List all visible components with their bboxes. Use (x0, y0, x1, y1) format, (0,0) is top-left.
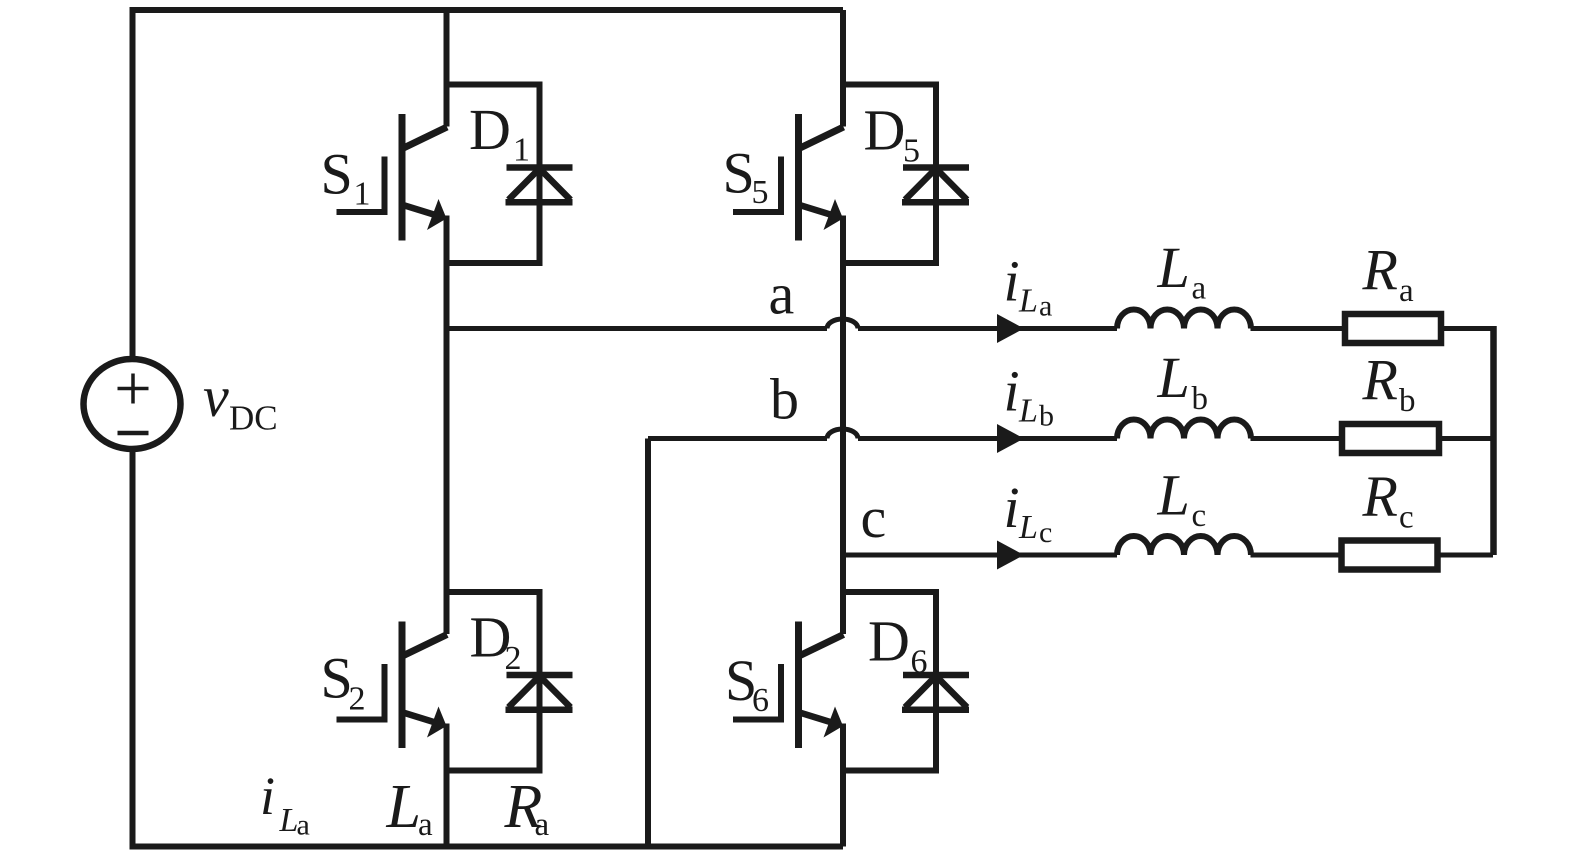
svg-text:i: i (260, 766, 275, 826)
wire Rc to bus (1438, 553, 1494, 558)
svg-text:L: L (1157, 345, 1190, 410)
inductor Lc (1117, 536, 1251, 555)
svg-text:a: a (535, 807, 550, 843)
svg-text:a: a (769, 262, 795, 327)
inductor Lb (1117, 420, 1251, 439)
svg-text:c: c (1039, 516, 1052, 549)
transistor S2 (337, 622, 448, 749)
diode D5 (843, 85, 969, 264)
svg-text:L: L (1018, 509, 1038, 546)
svg-text:a: a (1399, 273, 1414, 309)
wire leg1 lower (444, 724, 450, 847)
svg-text:S: S (723, 141, 755, 206)
wire left rail lower (130, 451, 136, 847)
label vDC (203, 364, 278, 438)
svg-text:5: 5 (903, 133, 920, 170)
svg-text:5: 5 (752, 174, 769, 211)
svg-text:b: b (1399, 383, 1416, 419)
svg-text:6: 6 (911, 644, 928, 681)
resistor Rc (1342, 541, 1438, 570)
wire right bus (1490, 326, 1497, 555)
label D1 (469, 97, 530, 169)
label iLa bottom (260, 766, 310, 842)
voltage source vDC (84, 359, 181, 449)
svg-text:L: L (1157, 235, 1190, 300)
wire Lc to Rc (1251, 553, 1342, 558)
label Rb (1362, 348, 1416, 420)
diode D2 (447, 592, 573, 771)
svg-text:i: i (1004, 249, 1020, 314)
label La bottom (386, 773, 434, 843)
svg-text:2: 2 (349, 681, 366, 718)
svg-text:c: c (1192, 498, 1207, 534)
label S5 (723, 141, 769, 212)
label Ra bottom (504, 773, 550, 843)
wire left rail upper (130, 7, 136, 357)
wire La to Ra (1251, 326, 1346, 331)
node b wire (648, 429, 1117, 439)
wire leg2 middle (840, 216, 846, 635)
svg-text:v: v (203, 364, 229, 429)
svg-text:L: L (1157, 463, 1190, 528)
svg-text:b: b (770, 367, 799, 432)
wire phase-b riser (645, 439, 651, 847)
diode D6 (843, 592, 969, 771)
label iLb (1004, 359, 1055, 433)
svg-text:c: c (1399, 500, 1414, 536)
svg-text:L: L (1018, 283, 1038, 320)
wire leg2 lower (840, 724, 846, 847)
label Rc (1362, 464, 1414, 536)
svg-text:2: 2 (505, 640, 522, 677)
svg-text:i: i (1004, 359, 1020, 424)
svg-text:D: D (469, 97, 511, 162)
transistor S5 (733, 114, 844, 241)
svg-text:R: R (1362, 348, 1398, 413)
current arrow iLb (997, 424, 1024, 453)
wire Ra to bus (1441, 326, 1496, 331)
label D5 (864, 98, 921, 170)
node a wire (449, 319, 1117, 329)
resistor Rb (1342, 424, 1439, 453)
diode D1 (447, 85, 573, 264)
svg-text:R: R (1362, 238, 1398, 303)
svg-text:D: D (864, 98, 906, 163)
label iLc (1004, 475, 1053, 549)
transistor S6 (733, 622, 844, 749)
resistor Ra (1345, 314, 1441, 343)
label Ra (1362, 238, 1415, 310)
svg-text:L: L (1018, 393, 1038, 430)
wire leg1 middle (444, 216, 450, 635)
wire leg1 upper (444, 10, 450, 127)
transistor S1 (337, 114, 448, 241)
label D6 (868, 609, 928, 681)
wire leg2 upper (840, 10, 846, 127)
inductor La (1117, 310, 1251, 329)
node c wire (843, 553, 1117, 558)
svg-text:6: 6 (752, 682, 769, 719)
wire Rb to bus (1439, 436, 1496, 441)
label S1 (321, 142, 371, 213)
label Lb (1157, 345, 1209, 417)
svg-text:b: b (1192, 381, 1209, 417)
svg-text:i: i (1004, 475, 1020, 540)
label S2 (321, 646, 366, 718)
svg-text:D: D (868, 609, 910, 674)
svg-text:DC: DC (229, 399, 278, 438)
label iLa (1004, 249, 1053, 323)
current arrow iLc (997, 541, 1024, 570)
label Lc (1157, 463, 1207, 535)
wire bottom rail (130, 844, 844, 850)
svg-text:1: 1 (513, 132, 530, 169)
svg-text:c: c (861, 485, 887, 550)
svg-text:a: a (1039, 290, 1052, 323)
svg-text:a: a (297, 809, 310, 842)
svg-text:L: L (279, 802, 299, 839)
label La (1157, 235, 1207, 307)
svg-text:b: b (1039, 400, 1054, 433)
svg-text:R: R (1362, 464, 1398, 529)
svg-text:1: 1 (354, 176, 371, 213)
wire Lb to Rb (1251, 436, 1343, 441)
svg-text:a: a (418, 807, 433, 843)
wire top rail (133, 7, 844, 13)
svg-text:L: L (386, 773, 421, 841)
label D2 (470, 605, 522, 678)
current arrow iLa (997, 314, 1024, 343)
svg-text:S: S (321, 142, 353, 207)
label S6 (725, 648, 769, 719)
svg-text:a: a (1192, 271, 1207, 307)
